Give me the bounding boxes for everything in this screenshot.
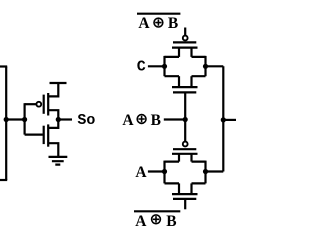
transistor M3 PMOS channel bar xyxy=(172,46,198,48)
transistor M5 PMOS channel bar xyxy=(172,153,198,155)
svg-text:B: B xyxy=(168,15,178,32)
transistor M1 PMOS bubble xyxy=(36,102,41,107)
svg-text:A: A xyxy=(122,112,134,129)
wire TG2 bottom leads xyxy=(165,182,206,184)
node gate net A xor B junction xyxy=(183,117,188,122)
transistor M6 NMOS source stub left xyxy=(178,183,180,194)
transistor M1 PMOS source lead to VDD xyxy=(48,83,58,96)
transistor M3 PMOS bubble (TG1) xyxy=(183,36,188,41)
node TG2 output junction xyxy=(203,169,208,174)
wire TG1 left rail xyxy=(163,56,165,76)
node TG1 input junction xyxy=(162,64,167,69)
wire top label to TG1 bubble xyxy=(184,28,186,36)
node input junction on bus xyxy=(4,117,9,122)
transistor M3 drain stub right xyxy=(190,48,192,57)
wire right output stub xyxy=(223,119,236,121)
transistor M5 source stub left xyxy=(178,154,180,162)
svg-text:C: C xyxy=(137,58,146,75)
wire bus to inverter input xyxy=(6,118,24,120)
transistor M2 NMOS drain lead xyxy=(48,120,58,128)
label A xor B middle xor symbol xyxy=(137,115,146,124)
label A xor B top overline xyxy=(137,13,180,15)
wire middle label to gate net xyxy=(164,118,185,120)
node right rail output junction xyxy=(221,117,226,122)
svg-text:B: B xyxy=(166,213,176,230)
wire TG2 right rail xyxy=(204,161,206,184)
power VDD tick xyxy=(50,82,67,84)
wire TG2 output to right rail xyxy=(206,170,224,172)
svg-text:So: So xyxy=(77,112,95,129)
transistor M6 NMOS drain stub right xyxy=(190,183,192,194)
transistor M4 NMOS source stub left xyxy=(178,76,180,87)
transistor M2 NMOS channel bar xyxy=(47,124,49,146)
transistor M4 NMOS gate bar xyxy=(173,91,196,93)
ground symbol xyxy=(49,157,68,165)
svg-text:A: A xyxy=(138,15,150,32)
transistor M3 source stub left xyxy=(178,48,180,57)
wire left bus vertical xyxy=(5,67,7,181)
wire TG1 bottom leads xyxy=(165,75,206,77)
wire M6 gate lead down xyxy=(184,199,186,209)
svg-text:A: A xyxy=(135,213,147,230)
node output So junction xyxy=(56,117,61,122)
label A xor B bottom overline xyxy=(134,210,180,212)
svg-text:A: A xyxy=(135,164,147,181)
svg-text:B: B xyxy=(151,112,161,129)
transistor M5 PMOS gate bar (TG2 top) xyxy=(173,148,196,150)
wire PMOS M1 gate lead xyxy=(25,103,36,105)
node gate junction xyxy=(22,117,27,122)
wire output So stub xyxy=(58,118,72,120)
transistor M1 PMOS channel bar xyxy=(47,93,49,116)
label A xor B bottom xor symbol xyxy=(152,215,161,224)
transistor M2 NMOS gate bar xyxy=(43,126,45,144)
transistor M6 NMOS gate bar xyxy=(173,198,196,200)
wire C input xyxy=(148,65,165,67)
wire TG1 right rail xyxy=(204,56,206,76)
label A xor B top xor symbol xyxy=(154,18,163,27)
wire gate connector vertical xyxy=(24,103,26,134)
wire TG1 top leads xyxy=(165,56,206,58)
transistor M2 NMOS source lead to ground xyxy=(48,143,58,157)
transistor M4 NMOS drain stub right xyxy=(190,76,192,87)
wire M4 gate lead down xyxy=(184,92,186,119)
transistor M5 PMOS bubble (TG2) xyxy=(183,142,188,147)
transistor M1 PMOS gate bar xyxy=(43,95,45,114)
wire TG1 output to right rail xyxy=(206,65,224,67)
wire TG2 left rail xyxy=(163,161,165,184)
transistor M1 PMOS drain lead xyxy=(48,110,58,119)
transistor M4 NMOS channel bar (TG1 bottom) xyxy=(172,86,198,88)
node TG1 output junction xyxy=(203,64,208,69)
transistor M6 NMOS channel bar (TG2 bottom) xyxy=(172,193,198,195)
wire right rail vertical xyxy=(222,66,224,171)
transistor M5 drain stub right xyxy=(190,154,192,162)
wire A input xyxy=(148,170,165,172)
wire TG2 top leads xyxy=(165,161,206,163)
node TG2 input junction xyxy=(162,169,167,174)
wire left bus bottom stub xyxy=(0,179,7,181)
transistor M3 PMOS gate bar (TG1 top) xyxy=(173,41,196,43)
wire left bus top stub xyxy=(0,65,7,67)
wire gate net to TG2 bubble xyxy=(184,120,186,142)
wire NMOS M2 gate lead xyxy=(25,134,43,136)
